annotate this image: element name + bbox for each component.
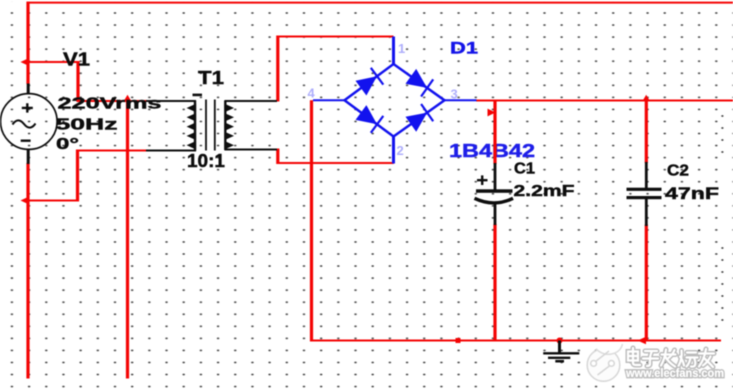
svg-text:C2: C2 (667, 162, 689, 179)
source bottom lead (27, 149, 30, 164)
svg-text:1B4B42: 1B4B42 (449, 141, 535, 161)
svg-text:47nF: 47nF (665, 185, 719, 203)
bridge pin 3 stub (444, 99, 477, 101)
diode triangle bottom-left (points to node 2) (356, 105, 378, 124)
C1 bottom lead (494, 204, 497, 226)
svg-text:4: 4 (308, 86, 316, 101)
svg-text:3: 3 (451, 87, 458, 102)
sheet border dashes (right edge) (721, 115, 723, 321)
primary coil teeth (188, 105, 196, 149)
wire: C2 top vertical (645, 101, 648, 164)
wire: C2 bottom vertical (645, 225, 648, 342)
svg-text:V1: V1 (63, 50, 90, 70)
wire: jog V1 bottom horizontal (24, 200, 79, 202)
plus sign (22, 103, 33, 112)
secondary bottom lead (225, 149, 278, 151)
source top lead (27, 84, 30, 95)
C2 bottom plate (627, 196, 662, 199)
C2 top lead (645, 162, 648, 188)
sine symbol (13, 120, 36, 127)
svg-text:C1: C1 (514, 161, 535, 178)
wire: jog vertical x78 (76, 61, 79, 102)
wire: to bridge pin 1 horizontal (277, 36, 394, 38)
svg-text:220Vrms: 220Vrms (58, 96, 162, 113)
wire: long vertical from primary-top junction down (126, 100, 129, 379)
ground bar 2 (548, 357, 570, 359)
source V1 circle (1, 94, 58, 150)
diode bar top-left (371, 68, 384, 85)
wire: V1 top vertical (26, 2, 29, 84)
wire: secondary top vertical up (276, 36, 279, 102)
svg-text:D1: D1 (450, 38, 478, 57)
junction tick on bottom rail (456, 338, 461, 343)
C1 top plate (476, 189, 513, 193)
polarity dash above core (193, 94, 203, 97)
ground stem (558, 341, 561, 354)
svg-text:2.2mF: 2.2mF (514, 183, 575, 200)
diode bar bottom-right (421, 104, 433, 121)
bridge pin 4 stub (313, 99, 345, 101)
C1 top lead (494, 163, 497, 190)
minus sign (21, 139, 31, 141)
junction dot at ground (557, 338, 563, 344)
primary top lead (146, 100, 196, 102)
C1 plus sign (477, 175, 488, 185)
C1 curved bottom plate (475, 198, 514, 203)
diode bar bottom-left (371, 116, 384, 133)
wire: jog vertical x77.5 (76, 150, 79, 202)
svg-text:T1: T1 (198, 68, 224, 88)
wire: bridge pin 4 vertical down (310, 100, 313, 341)
diode triangle top-left (points to node 1) (356, 76, 378, 95)
svg-text:www.elecfans.com: www.elecfans.com (625, 368, 724, 380)
wire: bottom rail horizontal (310, 340, 721, 342)
wire: top rail horizontal (27, 2, 733, 4)
secondary coil teeth (225, 105, 233, 149)
svg-text:2: 2 (397, 143, 404, 158)
wire: C1 top vertical (493, 101, 496, 165)
ground bar 1 (543, 352, 579, 354)
junction arrow up at primary-top junction (124, 95, 132, 102)
bridge pin 2 stub (392, 136, 395, 164)
wire: V1 bottom vertical down (26, 163, 29, 379)
wire: jog V1 top horizontal (24, 61, 80, 63)
wire: secondary bottom vertical down (276, 149, 279, 165)
primary coil spine (194, 101, 196, 152)
junction arrow left at V1 bottom jog (21, 197, 29, 204)
ground bar 3 (555, 360, 564, 363)
junction arrow up at C2 top (642, 95, 650, 102)
core line right (214, 100, 216, 151)
diode triangle bottom-right (points to node 3) (406, 113, 428, 132)
wire: C1 bottom vertical (493, 224, 496, 342)
wire: primary top horizontal (77, 100, 148, 102)
diode bar top-right (421, 79, 433, 96)
junction arrow left at V1 top jog (21, 58, 29, 65)
junction arrow left at C2 bottom corner (638, 337, 647, 345)
svg-text:50Hz: 50Hz (56, 117, 118, 134)
junction arrow right at C1 top (488, 109, 496, 117)
wire: output rail horizontal (476, 100, 733, 102)
diode triangle top-right (points to node 3) (406, 69, 428, 88)
core line left (205, 100, 207, 151)
watermark chinese text 电子发烧友 (stylized strokes) (628, 348, 714, 367)
wire: to bridge pin 2 horizontal (277, 162, 394, 164)
wire: primary bottom horizontal (76, 150, 147, 152)
C2 bottom lead (645, 199, 648, 226)
svg-text:1: 1 (398, 41, 405, 56)
primary bottom lead (146, 150, 196, 152)
watermark logo circle (587, 344, 622, 381)
secondary top lead (225, 100, 278, 102)
svg-text:0°: 0° (56, 136, 79, 153)
bridge diamond (345, 64, 445, 137)
secondary coil spine (224, 101, 226, 151)
bridge pin 1 stub (392, 37, 395, 65)
C2 top plate (627, 188, 662, 191)
svg-text:10:1: 10:1 (187, 151, 225, 171)
